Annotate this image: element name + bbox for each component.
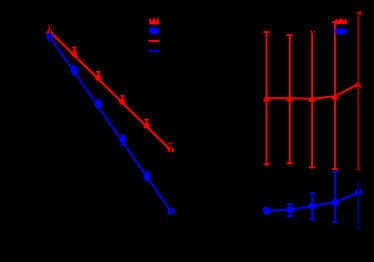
left panel right spine (black, overlays last point) bbox=[170, 11, 172, 229]
right blue errorbar p5 (darkened under axis spine) bbox=[356, 184, 361, 229]
left legend entry 1: red errorbar sample with triangle bbox=[149, 17, 159, 25]
right legend entry 2: blue errorbar sample with circle bbox=[335, 28, 347, 35]
left blue errorbar p5 bbox=[145, 172, 149, 181]
left red errorbar p3 bbox=[96, 72, 100, 80]
left blue errorbar p1 bbox=[48, 36, 51, 41]
left blue circle marker p1 bbox=[46, 33, 53, 40]
left red triangle marker p1 bbox=[46, 27, 54, 34]
right blue circle marker p5 bbox=[355, 189, 362, 196]
right blue circle marker p2 bbox=[286, 206, 293, 213]
right red errorbar p5 (darkened under axis spine) bbox=[355, 11, 361, 169]
right red errorbar p2 bbox=[287, 35, 293, 164]
left legend entry 2: blue errorbar sample with circle bbox=[149, 27, 159, 34]
right red errorbar p3 bbox=[309, 32, 315, 168]
right red triangle marker p4 bbox=[331, 93, 339, 100]
left legend entry 4: blue dashed line sample bbox=[149, 50, 160, 52]
right red triangle marker p2 bbox=[286, 94, 294, 101]
right blue errorbar p4 bbox=[332, 172, 338, 223]
left blue dashed fit line bbox=[50, 37, 171, 212]
left red errorbar p5 bbox=[145, 120, 149, 128]
left blue circle marker p3 bbox=[95, 101, 102, 108]
left blue circle marker p4 bbox=[119, 136, 126, 143]
left blue circle marker p6 bbox=[167, 208, 174, 215]
left red triangle marker p2 bbox=[71, 48, 79, 55]
right red triangle marker p5 bbox=[354, 80, 362, 87]
right panel right spine (black, overlays last point) bbox=[357, 11, 359, 229]
right blue data line bbox=[267, 192, 359, 210]
left blue errorbar p2 bbox=[72, 66, 76, 75]
right blue circle marker p1 bbox=[263, 207, 271, 215]
right blue errorbar p3 bbox=[309, 193, 315, 220]
right red errorbar p4 bbox=[332, 22, 338, 169]
left blue circle marker p5 bbox=[143, 172, 150, 179]
right red data line bbox=[267, 84, 359, 99]
left red errorbar p1 bbox=[48, 25, 51, 32]
left red errorbar p6 bbox=[169, 143, 174, 151]
left red triangle marker p6 bbox=[167, 145, 175, 152]
left panel left spine (black, overlays first point) bbox=[49, 11, 51, 229]
left red fit line bbox=[50, 32, 171, 151]
left red errorbar p4 bbox=[120, 96, 124, 104]
left red triangle marker p3 bbox=[95, 72, 103, 79]
right blue errorbar p2 bbox=[287, 204, 293, 217]
left blue errorbar p6 bbox=[170, 208, 172, 215]
left blue circle marker p2 bbox=[71, 67, 78, 74]
right red errorbar p1 bbox=[263, 32, 269, 165]
left blue errorbar p3 bbox=[96, 100, 100, 109]
right red triangle marker p3 bbox=[308, 95, 316, 102]
right legend entry 1: red errorbar sample with triangle bbox=[335, 17, 347, 24]
left legend entry 3: red solid line sample bbox=[149, 40, 160, 42]
right blue circle marker p3 bbox=[309, 202, 316, 209]
left red triangle marker p4 bbox=[119, 97, 127, 104]
right blue circle marker p4 bbox=[331, 199, 338, 206]
left red triangle marker p5 bbox=[143, 120, 151, 127]
right red triangle marker p1 bbox=[263, 94, 271, 101]
left red errorbar p2 bbox=[72, 47, 76, 55]
left blue errorbar p4 bbox=[120, 135, 124, 145]
